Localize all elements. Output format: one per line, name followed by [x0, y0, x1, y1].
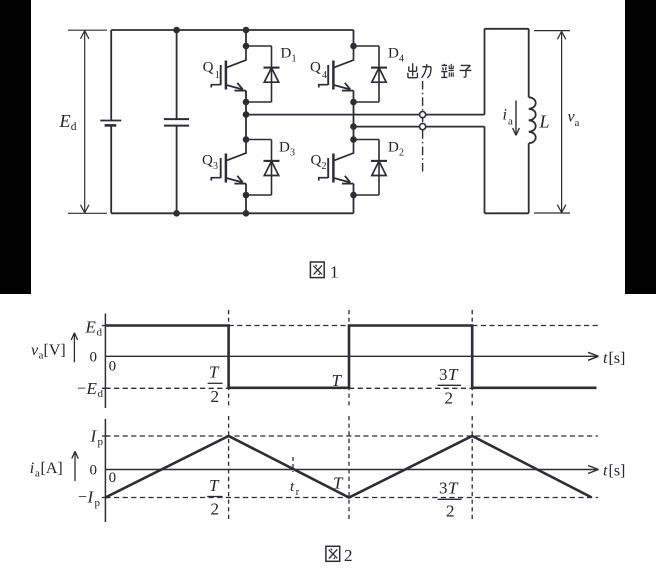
battery Ed source: [100, 30, 121, 213]
junction left leg midpoint node: [243, 111, 250, 118]
label Q1: [203, 60, 220, 82]
label 3T/2 wf1: [439, 365, 459, 407]
diode D3: [246, 140, 280, 196]
svg-text:2: 2: [446, 502, 455, 521]
svg-text:D: D: [279, 140, 290, 156]
label Ed axis: [85, 318, 103, 339]
axis t wf2: [105, 466, 598, 474]
junction Q1 emitter D1: [243, 99, 250, 106]
label t[s] wf1: [603, 350, 625, 367]
arrow up wf1: [71, 333, 77, 363]
dashed Ip level: [105, 435, 598, 437]
svg-text:T: T: [209, 363, 220, 382]
axis t wf1: [105, 352, 598, 360]
junction Q4 collector D4: [350, 43, 357, 50]
label T wf2: [333, 474, 344, 493]
svg-text:2: 2: [211, 387, 220, 406]
node output terminal lower: [420, 124, 426, 130]
svg-text:Q: Q: [310, 60, 321, 76]
svg-text:D: D: [388, 140, 399, 156]
dashed Ed level: [229, 325, 599, 327]
label L: [539, 112, 550, 132]
label zero origin wf2: [109, 470, 117, 486]
svg-text:E: E: [85, 318, 97, 337]
dimension arrow va: [534, 31, 570, 213]
label t[s] wf2: [603, 463, 625, 480]
arrow up wf2: [72, 451, 78, 481]
square wave va: [105, 326, 596, 388]
diode D2: [354, 140, 388, 196]
wire left leg: [245, 30, 247, 213]
transistor Q4: [319, 46, 354, 91]
label D2: [388, 140, 404, 159]
dimension arrow Ed: [68, 30, 107, 213]
label va[V]: [31, 342, 66, 362]
ticks Ip levels: [102, 436, 109, 498]
junction capacitor top rail: [173, 27, 180, 34]
svg-text:Q: Q: [203, 60, 214, 76]
svg-text:T: T: [209, 476, 220, 495]
junction capacitor bottom rail: [173, 210, 180, 217]
svg-text:a: a: [35, 468, 40, 480]
label output terminals kanji: [408, 63, 471, 78]
axis y wf2: [104, 419, 106, 522]
label T/2 wf1: [209, 363, 220, 407]
label Q2: [311, 153, 327, 173]
caption figure 2: [326, 546, 353, 565]
svg-text:−: −: [77, 381, 86, 398]
ticks Ed levels: [102, 326, 109, 389]
dashed vertical 3T/2 wf2: [471, 416, 473, 519]
svg-text:E: E: [86, 379, 98, 398]
label 3T/2 wf2: [439, 479, 459, 521]
wire top rail: [111, 29, 353, 31]
label D4: [388, 46, 404, 65]
label minus Ed: [77, 379, 104, 400]
junction left leg top rail: [243, 27, 250, 34]
transistor Q2: [319, 139, 354, 184]
label Q4: [310, 60, 327, 82]
svg-text:1: 1: [292, 54, 297, 65]
label minus Ip: [78, 488, 101, 510]
junction Q4 emitter D4: [350, 99, 357, 106]
svg-text:0: 0: [90, 350, 98, 366]
svg-text:Q: Q: [311, 153, 322, 169]
capacitor: [164, 30, 189, 213]
label D3: [279, 140, 295, 159]
junction left leg bottom rail: [243, 210, 250, 217]
svg-text:i: i: [30, 460, 34, 477]
label Q3: [202, 153, 218, 173]
svg-text:1: 1: [215, 70, 220, 81]
svg-text:t: t: [603, 463, 608, 480]
junction Q3 emitter D3: [243, 192, 250, 199]
dashed vertical T: [348, 310, 350, 406]
dashed vertical 3T/2: [471, 310, 473, 406]
label T/2 wf2: [209, 476, 220, 519]
wire upper output: [246, 114, 485, 116]
transistor Q3: [211, 139, 246, 184]
label zero origin wf1: [109, 359, 117, 375]
right black margin band: [625, 0, 656, 294]
diode D4: [354, 46, 388, 102]
dashed vertical T/2 wf2: [228, 416, 230, 519]
svg-text:d: d: [97, 327, 103, 339]
svg-text:0: 0: [109, 470, 117, 486]
svg-text:D: D: [388, 46, 399, 62]
diode D1: [246, 46, 280, 102]
svg-text:T: T: [332, 371, 343, 390]
junction right leg midpoint node: [350, 123, 357, 130]
svg-text:−: −: [78, 489, 87, 506]
label D1: [281, 46, 297, 65]
svg-text:[s]: [s]: [609, 350, 626, 367]
svg-text:T: T: [448, 479, 459, 498]
svg-text:d: d: [98, 388, 104, 400]
current arrow ia: [513, 101, 520, 136]
svg-text:t: t: [603, 350, 608, 367]
svg-text:3: 3: [439, 479, 448, 498]
transistor Q1: [211, 46, 246, 91]
svg-text:1: 1: [330, 262, 339, 281]
svg-text:2: 2: [344, 546, 353, 565]
dashed minus Ip level: [105, 497, 598, 499]
inductor L: [529, 97, 536, 143]
junction Q1 collector D1: [243, 43, 250, 50]
svg-text:4: 4: [399, 54, 404, 65]
svg-text:i: i: [503, 107, 507, 124]
svg-text:2: 2: [445, 388, 454, 407]
label Ip axis: [90, 427, 104, 449]
wire right leg: [353, 30, 355, 213]
svg-text:2: 2: [211, 500, 220, 519]
svg-text:3: 3: [213, 161, 218, 172]
left black margin band: [0, 0, 31, 294]
junction Q3 collector D3: [243, 136, 250, 143]
svg-text:0: 0: [90, 463, 98, 479]
label ia[A]: [30, 460, 63, 480]
svg-text:p: p: [95, 497, 101, 509]
svg-text:[V]: [V]: [44, 342, 66, 359]
svg-text:4: 4: [322, 70, 327, 81]
triangle wave ia: [105, 436, 591, 498]
svg-text:p: p: [98, 436, 104, 448]
svg-text:d: d: [71, 121, 77, 133]
svg-text:a: a: [508, 116, 513, 128]
junction Q2 collector D2: [350, 136, 357, 143]
svg-text:a: a: [575, 117, 580, 129]
caption figure 1: [310, 262, 338, 281]
svg-text:T: T: [333, 474, 344, 493]
svg-text:2: 2: [399, 148, 404, 159]
dash-dot terminal line: [422, 81, 424, 172]
svg-text:D: D: [281, 46, 292, 62]
svg-text:0: 0: [109, 359, 117, 375]
svg-text:[A]: [A]: [41, 460, 63, 477]
wire lower output: [354, 126, 485, 128]
label zero left wf2: [90, 463, 98, 479]
label ia: [503, 107, 514, 128]
axis y wf1: [104, 314, 106, 409]
dashed vertical T wf2: [348, 416, 350, 519]
label va: [568, 109, 580, 130]
svg-text:L: L: [539, 112, 550, 132]
dashed tick tr: [292, 457, 294, 472]
node output terminal upper: [420, 112, 426, 118]
svg-text:Q: Q: [202, 153, 213, 169]
svg-text:[s]: [s]: [609, 463, 626, 480]
svg-text:3: 3: [290, 148, 295, 159]
label T wf1: [332, 371, 343, 390]
dashed vertical T/2: [228, 310, 230, 406]
wire bottom rail: [111, 212, 353, 214]
load box: [485, 29, 529, 214]
label zero left wf1: [90, 350, 98, 366]
svg-text:E: E: [59, 111, 71, 131]
junction Q2 emitter D2: [350, 192, 357, 199]
svg-text:T: T: [448, 365, 459, 384]
dashed minus Ed level: [105, 387, 472, 389]
label tr: [290, 479, 300, 498]
label Ed: [59, 111, 77, 133]
svg-text:2: 2: [322, 161, 327, 172]
svg-text:3: 3: [439, 365, 448, 384]
